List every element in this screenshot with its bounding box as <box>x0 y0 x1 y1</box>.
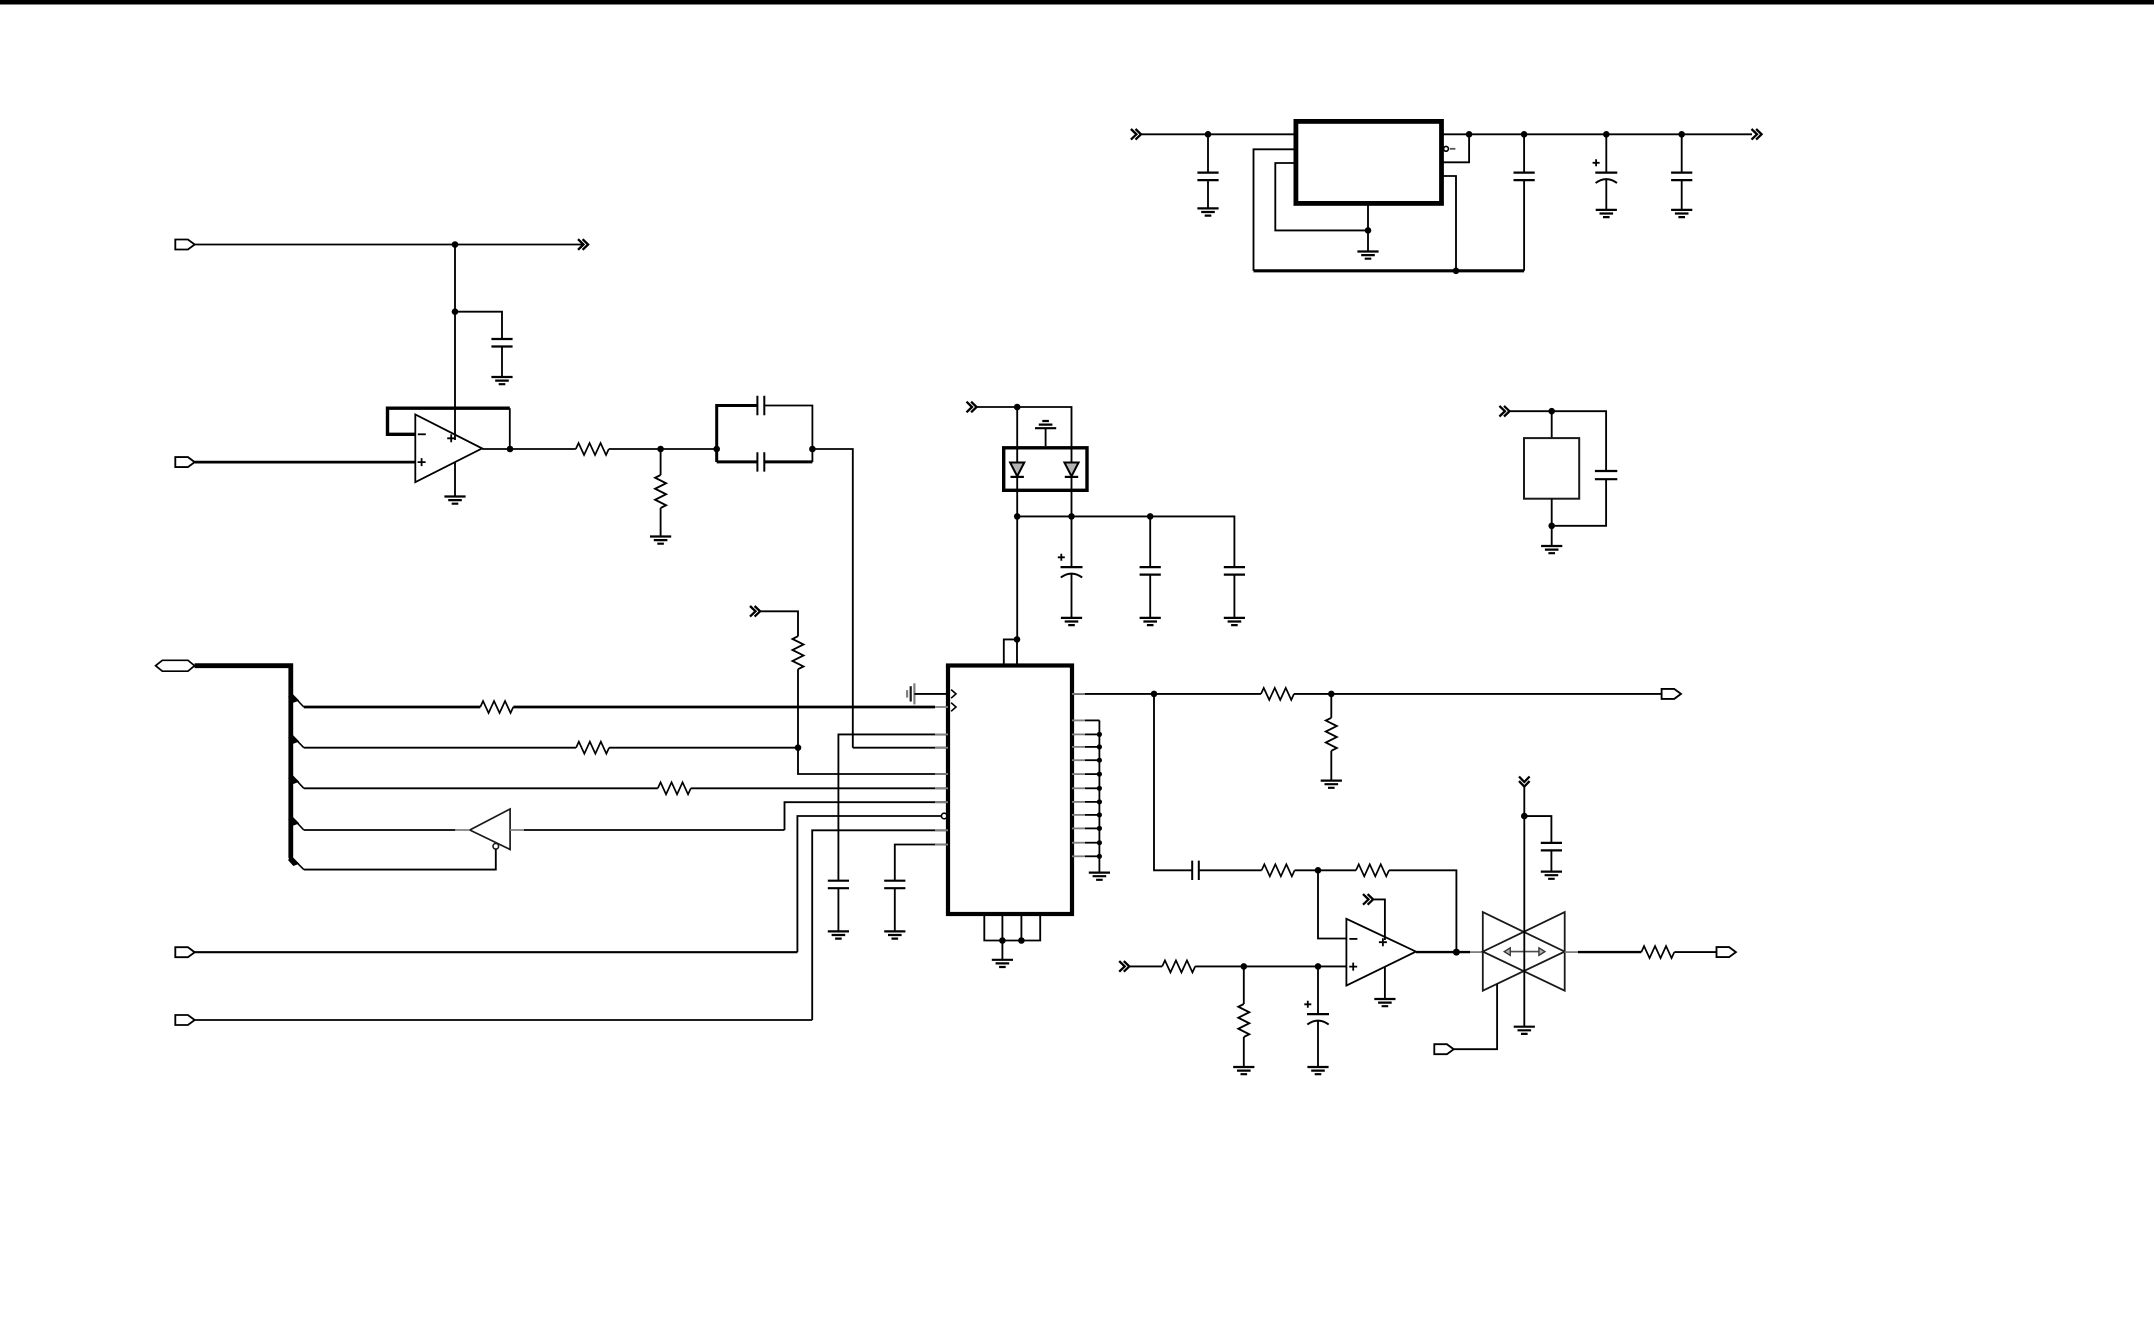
resistor R5 <box>793 636 804 669</box>
wire U5 out stub <box>1470 951 1483 953</box>
wire R13 to J7 <box>1674 951 1716 953</box>
resistor R3 <box>480 701 513 713</box>
connector J4 <box>175 947 194 957</box>
junction ladder 1 <box>1097 732 1102 737</box>
branch2 wire right <box>609 747 798 749</box>
wire U6 out stub <box>1565 951 1578 953</box>
bus tap 1 <box>292 694 304 707</box>
inverter U4 <box>455 809 524 850</box>
wire J4 <box>195 951 798 953</box>
junction ladder 4 <box>1097 772 1102 777</box>
capacitor C8 <box>1058 554 1083 578</box>
junction xtal bottom <box>1548 523 1555 530</box>
wire D2 cathode <box>1071 476 1073 516</box>
branch1 wire right <box>513 706 935 709</box>
junction U3 gnd a <box>999 937 1006 944</box>
wire D2 anode <box>1071 448 1073 463</box>
wire C8 stub <box>1071 516 1073 567</box>
top border bar <box>0 0 2154 5</box>
capacitor C4 <box>1197 173 1218 181</box>
wire pin10 to C13 <box>895 845 948 881</box>
wire R8 stub <box>1330 694 1332 718</box>
wire C6 stub <box>1605 134 1607 172</box>
analog switch U6 <box>1483 912 1565 991</box>
wire J1 to net arrow <box>195 244 583 246</box>
wire C8 to ground <box>1071 574 1073 618</box>
wire R7 left <box>1154 693 1261 695</box>
wire C7 stub <box>1681 134 1683 172</box>
wire xtal stub top <box>1551 411 1553 438</box>
pin1 arrow <box>951 690 956 699</box>
net arrow PWR in <box>1131 129 1141 140</box>
bus connector J3 <box>156 660 195 671</box>
wire J2 to op-amp + input <box>195 461 416 464</box>
ground U3 ladder <box>1089 873 1110 880</box>
ground C10 <box>1224 618 1245 625</box>
diode array D-box <box>1004 448 1087 491</box>
wire node A1 down to op-amp V+ <box>454 245 456 441</box>
capacitor C12 <box>828 881 849 889</box>
capacitor C3 <box>757 452 764 471</box>
junction ladder 10 <box>1097 854 1102 859</box>
resistor R10 <box>1356 864 1389 876</box>
ground C15 <box>1307 1067 1328 1074</box>
wire filter out to IC pin <box>812 449 852 748</box>
wire xtal stub bottom <box>1551 499 1553 546</box>
bus tap arrow 1 <box>288 692 299 703</box>
bus tap arrow 5 <box>288 855 299 866</box>
wire R1 to node B <box>609 448 717 450</box>
junction U3 gnd b <box>1018 937 1025 944</box>
wire U5 VSS to ground <box>1384 967 1386 999</box>
resistor R4 <box>576 742 609 754</box>
wire R12 to ground <box>1243 1037 1245 1067</box>
branch3 wire left <box>304 787 658 789</box>
wire U6 ctl <box>1523 786 1525 1027</box>
wire C11 bottom <box>1552 479 1606 526</box>
resistor R7 <box>1261 688 1294 700</box>
clamp output rail <box>1017 516 1234 567</box>
junction rail a <box>1466 131 1473 138</box>
junction out row a <box>1151 691 1158 698</box>
resistor R13 <box>1641 946 1674 958</box>
wire R9 to node <box>1295 869 1318 871</box>
ground R8 <box>1321 781 1342 788</box>
wire pin6 stub <box>691 787 948 789</box>
op-amp U5 <box>1346 919 1416 986</box>
junction PWR C4 <box>1205 131 1212 138</box>
wire U3 top pin loop <box>1004 639 1017 665</box>
pin8 inverted circle <box>941 813 947 819</box>
ground C13 <box>884 931 905 938</box>
pin2 arrow <box>951 703 956 712</box>
wire R10 to output <box>1389 870 1456 952</box>
junction clamp c <box>1147 513 1154 520</box>
net arrow U5 VCC <box>1363 894 1373 905</box>
wire U2 fb pin down <box>1442 176 1457 271</box>
net arrow pullup <box>750 606 760 617</box>
junction clamp a <box>1014 513 1021 520</box>
wire pin1 <box>914 693 948 695</box>
wire U2 pin2 loop <box>1254 149 1296 270</box>
ground U3 <box>992 960 1013 967</box>
bus tap 3 <box>292 775 304 788</box>
wire in+ left <box>1129 965 1162 967</box>
wire node B to R2 <box>660 449 662 475</box>
wire pin4 stub <box>853 747 948 749</box>
net arrow A1 out <box>578 239 588 250</box>
wire C14 to R9 <box>1199 869 1262 871</box>
junction filter in <box>713 446 720 453</box>
wire C1 to ground <box>501 347 503 378</box>
wire pullup top <box>760 611 798 636</box>
U2 sense pin circle <box>1444 146 1456 151</box>
ground flipped above D-box <box>1035 421 1056 428</box>
wire U3 bottom pins <box>984 914 1040 941</box>
wire node to R10 <box>1318 869 1356 871</box>
capacitor C13 <box>884 881 905 889</box>
wire C16 top <box>1524 816 1551 843</box>
wire U4 input <box>524 829 785 831</box>
ground U2 <box>1357 252 1378 259</box>
wire pin3 to C12 <box>838 734 948 880</box>
ground C9 <box>1140 618 1161 625</box>
net arrow U5 in+ <box>1119 961 1129 972</box>
wire C4 stub <box>1207 134 1209 172</box>
ground U1 <box>444 497 465 504</box>
capacitor C2 <box>757 396 764 415</box>
branch2 wire left <box>304 747 576 749</box>
wire R11 to U5 <box>1195 965 1346 967</box>
regulator U2 <box>1296 121 1442 203</box>
ground U6 <box>1514 1027 1535 1034</box>
wire pin7 jog <box>785 802 949 830</box>
ground R12 <box>1233 1067 1254 1074</box>
bus tap arrow 3 <box>288 773 299 784</box>
wire pin5 jog <box>798 748 948 774</box>
wire node to IC top <box>1016 516 1018 639</box>
junction in+ b <box>1315 963 1322 970</box>
wire C13 to ground <box>894 888 896 931</box>
crystal Y1 <box>1524 438 1579 499</box>
bus tap 5 <box>292 857 304 869</box>
junction U2 fb <box>1453 268 1460 275</box>
junction ladder 6 <box>1097 799 1102 804</box>
wire U3 bottom pin c <box>1020 914 1022 941</box>
wire vref rail <box>977 407 1072 448</box>
capacitor C11 <box>1595 471 1617 479</box>
junction ladder 8 <box>1097 826 1102 831</box>
resistor R6 <box>658 782 691 794</box>
branch4 wire <box>304 829 456 831</box>
wire D1 cathode <box>1016 476 1018 516</box>
wire R2 to ground <box>660 508 662 537</box>
bus tap arrow 2 <box>288 732 299 743</box>
U3 left pin stubs <box>935 734 948 844</box>
wire C15 stub <box>1317 966 1319 1014</box>
wire U2 adj to rail <box>1442 134 1470 162</box>
capacitor C16 <box>1541 843 1562 851</box>
capacitor C10 <box>1224 567 1245 575</box>
junction node B <box>657 446 664 453</box>
wire U2 gnd pin <box>1367 203 1369 251</box>
junction out row b <box>1328 691 1335 698</box>
junction U6 ctl <box>1521 813 1528 820</box>
wire C16 to ground <box>1550 850 1552 871</box>
capacitor C7 <box>1671 173 1692 181</box>
diode D1 <box>1010 463 1024 477</box>
wire U5 out <box>1416 951 1470 953</box>
wire C9 stub <box>1149 516 1151 567</box>
power rail left <box>1141 133 1296 135</box>
bus trunk <box>195 666 291 858</box>
wire D1 anode <box>1016 448 1018 463</box>
bus tap 2 <box>292 735 304 748</box>
wire U1 V- to ground <box>454 463 456 497</box>
capacitor C5 <box>1514 173 1535 181</box>
net arrow VREF in <box>967 402 977 413</box>
resistor R11 <box>1162 960 1195 972</box>
branch1 stub <box>935 706 948 708</box>
connector J6 <box>1662 689 1681 699</box>
ground C7 <box>1671 210 1692 217</box>
ground C8 <box>1061 618 1082 625</box>
capacitor C1 <box>491 339 512 347</box>
net arrow PWR out <box>1752 129 1762 140</box>
wire R12 stub <box>1243 966 1245 1004</box>
diode D2 <box>1064 463 1078 477</box>
junction clamp b <box>1068 513 1075 520</box>
junction xtal top <box>1548 408 1555 415</box>
junction U2 gnd <box>1365 227 1372 234</box>
junction ladder 7 <box>1097 812 1102 817</box>
net arrow U6 ctl <box>1519 777 1530 787</box>
filter box bottom right <box>764 460 812 463</box>
connector J2 <box>175 457 194 467</box>
connector J7 <box>1717 947 1736 957</box>
junction ladder 5 <box>1097 786 1102 791</box>
ground C12 <box>828 931 849 938</box>
wire U2 pin3 loop <box>1275 163 1368 230</box>
wire U3 out pin <box>1072 693 1154 695</box>
resistor R2 <box>655 475 666 508</box>
wire bottom to C5 <box>1523 180 1525 271</box>
ground C1 <box>491 377 512 384</box>
no-connect symbol pin1 <box>907 683 914 704</box>
junction vref <box>1014 404 1021 411</box>
branch1 wire left <box>304 706 481 709</box>
capacitor C6 <box>1593 159 1618 183</box>
junction ladder 9 <box>1097 840 1102 845</box>
wire C4 to ground <box>1207 180 1209 208</box>
op-amp U1 <box>415 415 482 483</box>
wire node to inv input <box>1318 870 1346 938</box>
wire C5 stub <box>1523 134 1525 172</box>
wire C10 to ground <box>1233 575 1235 618</box>
power rail right <box>1442 133 1753 135</box>
ground C4 <box>1197 208 1218 215</box>
junction inv node <box>1315 867 1322 874</box>
junction in+ a <box>1241 963 1248 970</box>
feedback bottom wire <box>1254 269 1525 272</box>
filter box bottom left <box>717 460 758 463</box>
resistor R8 <box>1326 718 1337 751</box>
filter box top right <box>764 406 812 463</box>
U3 right pin ladder <box>1072 720 1099 872</box>
junction rail d <box>1678 131 1685 138</box>
junction U5 out <box>1453 949 1460 956</box>
wire U1 output <box>482 448 576 450</box>
junction node A2 <box>452 308 459 315</box>
connector J5 <box>175 1015 194 1025</box>
wire gnd stub to D-box <box>1045 428 1047 446</box>
junction ladder 3 <box>1097 758 1102 763</box>
bus tap arrow 4 <box>288 814 299 825</box>
ground C6 <box>1596 210 1617 217</box>
wire J8 to U6 <box>1454 984 1497 1049</box>
net arrow XTAL in <box>1499 406 1509 417</box>
wire node A2 to C1 <box>455 312 502 339</box>
ground U5 <box>1374 999 1395 1006</box>
junction U3 top <box>1014 636 1021 643</box>
wire R8 to ground <box>1330 751 1332 781</box>
junction rail b <box>1521 131 1528 138</box>
capacitor C14 <box>1192 861 1199 880</box>
filter box left branch <box>717 406 758 463</box>
resistor R12 <box>1238 1004 1249 1037</box>
junction rail c <box>1603 131 1610 138</box>
resistor R1 <box>576 443 609 455</box>
ground C16 <box>1541 872 1562 879</box>
wire J5 <box>195 1019 813 1021</box>
wire pin8 to J4 line <box>797 816 941 952</box>
wire U4 enable <box>304 849 496 870</box>
connector J8 <box>1434 1044 1453 1054</box>
wire C6 to ground <box>1605 179 1607 210</box>
ground Y1 <box>1541 546 1562 553</box>
resistor R9 <box>1262 864 1295 876</box>
connector J1 <box>175 240 194 250</box>
wire U3 to ground <box>1001 941 1003 960</box>
junction branch2 <box>795 744 802 751</box>
capacitor C9 <box>1140 567 1161 575</box>
ground R2 <box>650 537 671 544</box>
junction ladder 2 <box>1097 744 1102 749</box>
junction node A1 <box>452 241 459 248</box>
wire R7 right <box>1294 693 1662 695</box>
U3 out pin stub <box>1072 693 1085 695</box>
wire xtal top <box>1510 411 1607 471</box>
wire C7 to ground <box>1681 180 1683 210</box>
wire C15 to ground <box>1317 1021 1319 1068</box>
wire C9 to ground <box>1149 575 1151 618</box>
IC U3 <box>948 666 1072 915</box>
wire U3 bottom pin b <box>1001 914 1003 941</box>
wire out row down <box>1154 694 1192 870</box>
junction U1 output <box>507 446 514 453</box>
capacitor C15 <box>1304 1001 1329 1025</box>
wire pin9 jog <box>812 830 948 1020</box>
wire U5 VCC <box>1373 899 1385 940</box>
feedback wire U1 right drop <box>509 408 511 449</box>
feedback wire U1 thick <box>388 408 510 434</box>
wire C12 to ground <box>837 888 839 931</box>
wire pullup bottom <box>797 669 799 748</box>
wire vref to D1 <box>1016 407 1018 448</box>
wire U6 out <box>1578 951 1641 953</box>
bus tap 4 <box>292 817 304 830</box>
junction filter out <box>809 446 816 453</box>
